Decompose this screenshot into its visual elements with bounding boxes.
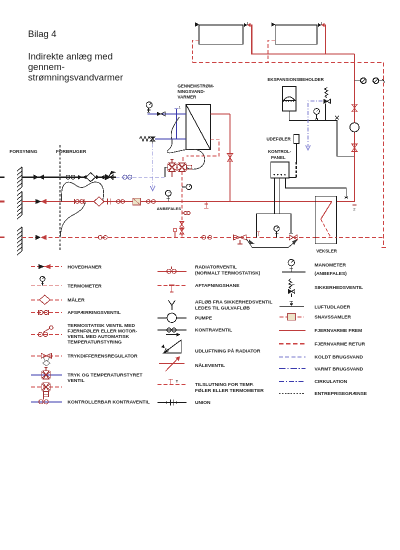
wall hatch bottom [17, 227, 22, 255]
legend cirkulation [279, 379, 348, 385]
subtitle [28, 52, 123, 83]
svg-text:TERMOSTATISK VENTIL MED: TERMOSTATISK VENTIL MED [68, 323, 136, 329]
svg-text:FJERNVARME FREM: FJERNVARME FREM [315, 328, 363, 334]
LEGEND column 3 [279, 259, 368, 397]
legend radiatorventil [158, 265, 261, 277]
afspærringsventil frem B [116, 200, 124, 204]
svg-text:SNAVSSAMLER: SNAVSSAMLER [315, 315, 352, 321]
ventil på riser nedre [352, 144, 357, 152]
svg-text:ENTREPRISEGRÆNSE: ENTREPRISEGRÆNSE [315, 391, 368, 397]
edge stub koldt [0, 176, 5, 178]
manometer on varmt line [146, 102, 152, 112]
afspærringsventil retur A [98, 236, 107, 240]
veksler heat exchanger U2 [315, 196, 336, 244]
aftapningshane on retur [173, 228, 177, 237]
valve bowtie koldt B [96, 175, 105, 179]
wire radiator frem riser [354, 54, 356, 202]
svg-text:Indirekte anlæg med: Indirekte anlæg med [28, 52, 113, 62]
svg-text:TERMOMETER: TERMOMETER [68, 283, 103, 289]
legend måler [31, 295, 85, 304]
ventil på frem riser [227, 154, 232, 162]
svg-text:KONTRAVENTIL: KONTRAVENTIL [195, 328, 232, 334]
wire afløb fra sikkerhedsventil dash-dot [306, 101, 323, 150]
svg-text:VARMER: VARMER [178, 95, 198, 100]
legend aftapningshane [158, 283, 241, 292]
manometer på retur ved panel [274, 226, 279, 237]
wire radiator retur vandret dashed [192, 62, 383, 64]
afspærringsventil on koldt [66, 175, 75, 179]
radiatorventil R1 [244, 22, 251, 27]
svg-text:TRYK OG TEMPERATURSTYRET: TRYK OG TEMPERATURSTYRET [68, 373, 143, 379]
svg-text:UDEFØLER: UDEFØLER [267, 137, 292, 142]
squiggle capillary above frem [62, 182, 104, 201]
aftapningshane kryds på ekspansionsrør [335, 116, 339, 120]
wire entreprisegrænse divider [59, 145, 61, 250]
legend afløb Y [168, 300, 272, 312]
udluftning radiator R2 [271, 22, 275, 26]
svg-text:GENNEMSTRØM-: GENNEMSTRØM- [178, 84, 215, 89]
wire retur fra R1 dashed [192, 40, 199, 62]
svg-text:NÅLEVENTIL: NÅLEVENTIL [195, 362, 225, 369]
wire udeføler til panel [289, 143, 296, 177]
hovedhane on retur [36, 235, 47, 240]
wire panel til føler på frem [286, 178, 348, 198]
sikkerhedsventil ved ekspansion [324, 88, 331, 121]
svg-text:TRYKDIFFERENSREGULATOR: TRYKDIFFERENSREGULATOR [68, 353, 139, 359]
svg-text:MÅLER: MÅLER [68, 297, 86, 304]
svg-text:FORBRUGER: FORBRUGER [56, 149, 87, 154]
svg-text:FØLER ELLER TERMOMETER: FØLER ELLER TERMOMETER [195, 388, 264, 394]
capillary curve veksler til termostatventil [167, 117, 204, 169]
svg-text:FORSYNING: FORSYNING [10, 149, 38, 154]
svg-text:MANOMETER: MANOMETER [315, 263, 347, 269]
LEGEND column 2 [158, 265, 273, 407]
tilslutning temp føler on frem [204, 202, 208, 209]
svg-text:AFTAPNINGSHANE: AFTAPNINGSHANE [195, 283, 240, 289]
udeføler sensor [294, 135, 299, 144]
svg-text:HOVEDHANER: HOVEDHANER [68, 264, 103, 270]
tilslutning temp føler på retur [256, 232, 260, 236]
aftapningshane på dashed retur [182, 212, 190, 215]
wire panel ben til reguleringsventiler [257, 178, 294, 237]
ekspansionsbeholder vessel [283, 87, 297, 112]
motorventil på retur [289, 235, 297, 240]
legend fjernvarme retur [279, 341, 366, 347]
svg-text:strømningsvandvarmer: strømningsvandvarmer [28, 73, 123, 83]
svg-text:AFLØB FRA SIKKERHEDSVENTIL: AFLØB FRA SIKKERHEDSVENTIL [195, 300, 272, 306]
afspærringsventil blue on koldt [123, 175, 132, 179]
svg-text:CIRKULATION: CIRKULATION [315, 379, 348, 385]
svg-text:1: 1 [179, 106, 181, 110]
heat exchanger U1 gennemstrømningsvandvarmer [186, 105, 210, 150]
union on frem [108, 198, 111, 204]
legend koldt brugsvand [279, 355, 363, 361]
pumpe P1 [350, 123, 359, 132]
legend union [158, 399, 211, 406]
legend trykdifferensregulator [31, 353, 138, 366]
wire ekspansion til anlæg [289, 111, 354, 156]
legend kontraventil [158, 328, 233, 336]
svg-text:KONTROLLERBAR KONTRAVENTIL: KONTROLLERBAR KONTRAVENTIL [68, 399, 150, 405]
wire koldt jog up to mixing valve [165, 167, 168, 177]
legend termometer [31, 276, 102, 289]
svg-text:(ANBEFALES): (ANBEFALES) [315, 271, 348, 277]
legend pumpe [158, 313, 213, 322]
svg-text:TEMPERATURSTYRING: TEMPERATURSTYRING [68, 340, 123, 346]
wire fjernvarme frem main [22, 201, 355, 203]
legend manometer [282, 259, 347, 277]
manometer på ekspansionsrør [314, 109, 320, 121]
svg-text:VEKSLER: VEKSLER [316, 249, 338, 254]
valve bowtie on varmt line [157, 112, 165, 116]
edge stub frem [0, 201, 5, 203]
wire fjernvarme retur fra veksler dashed [183, 139, 219, 162]
måler diamond on koldt [86, 173, 95, 182]
termostatisk ventil V1 [168, 160, 176, 178]
edge stub retur [0, 236, 5, 238]
svg-text:FJERNFØLER ELLER MOTOR-: FJERNFØLER ELLER MOTOR- [68, 329, 138, 335]
legend afspærringsventil [31, 310, 121, 316]
label KONTROL-PANEL [268, 149, 292, 160]
ventil på riser øvre [352, 104, 357, 112]
afspærringsventil retur B [202, 236, 212, 240]
svg-text:FJERNVARME RETUR: FJERNVARME RETUR [315, 341, 366, 347]
legend tilslutning temp føler [158, 379, 265, 394]
svg-text:LUFTUDLADER: LUFTUDLADER [315, 304, 351, 310]
svg-text:NINGSVAND-: NINGSVAND- [178, 89, 206, 94]
svg-text:Bilag 4: Bilag 4 [28, 29, 56, 39]
valve bowtie koldt A [78, 175, 87, 179]
luftudladere på dashed retur [180, 222, 184, 234]
wire fjernvarme retur main dashed [22, 236, 384, 238]
svg-text:LEDES TIL GULVAFLØB: LEDES TIL GULVAFLØB [195, 306, 250, 312]
legend snavssamler [280, 314, 352, 321]
legend tryk og temperaturstyret ventil [31, 368, 142, 397]
svg-text:SIKKERHEDSVENTIL: SIKKERHEDSVENTIL [315, 285, 364, 291]
svg-text:T: T [176, 379, 179, 383]
svg-text:TILSLUTNING FOR TEMP.: TILSLUTNING FOR TEMP. [195, 382, 254, 388]
kontraventil med flag on koldt [106, 172, 115, 180]
svg-text:UNION: UNION [195, 400, 211, 406]
legend kontrollerbar kontraventil [31, 397, 150, 406]
wire radiator retur riser dashed [383, 63, 385, 248]
label gennemstrømningsvandvarmer [178, 84, 215, 100]
wire varmt brugsvand top line [148, 113, 186, 115]
wire retur fra R2 dashed [268, 40, 275, 62]
wire afløb dash-dot til gulv [150, 144, 155, 191]
svg-text:2: 2 [353, 207, 356, 212]
legend sikkerhedsventil [288, 279, 363, 297]
squiggle frem to retur [60, 202, 85, 237]
svg-text:ANBEFALES: ANBEFALES [157, 206, 182, 211]
wire koldt brugsvand solid black segment [22, 176, 116, 178]
node 2 mærke [353, 205, 357, 212]
snavssamler on frem [133, 198, 141, 205]
afspærringsventil frem A [75, 199, 84, 204]
hovedhane on koldt [34, 175, 44, 180]
svg-text:VENTIL: VENTIL [68, 378, 85, 384]
radiatorventil R2 [318, 22, 325, 27]
svg-text:VARMT BRUGSVAND: VARMT BRUGSVAND [315, 366, 364, 372]
måler diamond on frem [94, 197, 104, 206]
legend varmt brugsvand [279, 366, 364, 372]
svg-text:gennem-: gennem- [28, 62, 65, 72]
afspærringsventil frem C [146, 200, 155, 204]
legend fjernvarme frem [279, 328, 362, 334]
udluftning radiator R1 [195, 22, 199, 26]
wall hatch top [17, 167, 22, 191]
manometer anbefales on frem [165, 190, 171, 201]
legend termostatisk ventil [31, 323, 138, 346]
node temp føler 1 on varmt [174, 106, 180, 139]
radiator R2 [275, 25, 317, 44]
hovedhane on frem [36, 199, 47, 204]
svg-text:(NORMALT TERMOSTATISK): (NORMALT TERMOSTATISK) [195, 271, 261, 277]
sikkerhedsventil on koldt branch [140, 137, 155, 144]
svg-text:PUMPE: PUMPE [195, 316, 213, 322]
kontrollerbar kontraventil on retur [234, 235, 247, 244]
legend udluftning på radiator [161, 340, 261, 355]
LEGEND column 1 [31, 264, 150, 405]
wire frem riser til veksler [229, 114, 231, 202]
wall hatch middle [17, 192, 22, 220]
svg-text:PANEL: PANEL [271, 155, 286, 160]
legend hovedhaner [31, 264, 102, 270]
legend luftudlader [280, 301, 351, 310]
svg-text:KOLDT BRUGSVAND: KOLDT BRUGSVAND [315, 355, 364, 361]
svg-text:VENTIL MED AUTOMATISK: VENTIL MED AUTOMATISK [68, 334, 130, 340]
wire frem R2 [325, 25, 326, 54]
svg-text:KONTROL-: KONTROL- [268, 149, 292, 154]
termometer og manometer på riser [355, 78, 385, 84]
legend nåleventil [159, 357, 225, 371]
radiator R1 [199, 25, 243, 44]
svg-text:AFSPÆRRINGSVENTIL: AFSPÆRRINGSVENTIL [68, 310, 121, 316]
kontrolpanel box [271, 162, 289, 178]
wire frem fra veksler højre [210, 113, 230, 115]
manometer ved motorventil [182, 184, 192, 189]
motorventil V2 med aktuator [176, 163, 192, 171]
bypass with nåleventiler under retur [247, 239, 298, 247]
wire koldt ind til varmeveksler [155, 138, 186, 140]
svg-text:UDLUFTNING PÅ RADIATOR: UDLUFTNING PÅ RADIATOR [195, 348, 261, 355]
retur riser end tick [381, 247, 385, 249]
svg-text:EKSPANSIONSBEHOLDER: EKSPANSIONSBEHOLDER [268, 77, 325, 82]
legend entreprisegrænse [279, 391, 368, 397]
svg-text:RADIATORVENTIL: RADIATORVENTIL [195, 265, 237, 271]
wire dashed retur fra motorventil ned [181, 172, 183, 238]
wire koldt brugsvand blue dashed segment [116, 176, 165, 178]
wire frem til radiatorer [251, 25, 355, 54]
